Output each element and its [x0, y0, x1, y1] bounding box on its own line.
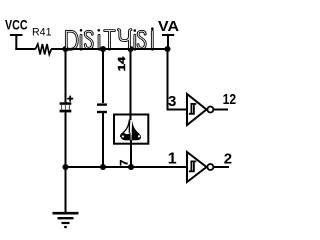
svg-text:VA: VA: [158, 18, 179, 35]
svg-text:2: 2: [224, 151, 232, 168]
svg-text:R41: R41: [32, 26, 52, 38]
svg-text:1: 1: [168, 150, 177, 167]
svg-text:7: 7: [118, 160, 130, 166]
svg-text:12: 12: [223, 91, 237, 108]
svg-text:3: 3: [168, 93, 176, 110]
svg-text:14: 14: [117, 56, 128, 71]
svg-text:VCC: VCC: [5, 17, 28, 33]
